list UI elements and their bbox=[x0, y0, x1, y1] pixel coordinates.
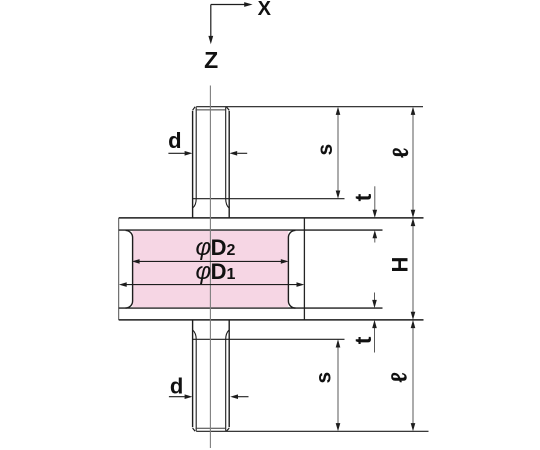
plate left edge bbox=[118, 218, 120, 320]
dimension l (bottom) bbox=[411, 320, 416, 431]
top plate top line bbox=[119, 217, 424, 219]
svg-text:t: t bbox=[350, 336, 376, 344]
dimension d (bottom) bbox=[169, 394, 249, 399]
plate right edge bbox=[303, 218, 305, 320]
svg-text:X: X bbox=[258, 0, 272, 20]
top stud top edge + extension line bbox=[196, 106, 423, 108]
dimension s (top) bbox=[336, 107, 341, 199]
dimension l (top) bbox=[411, 107, 416, 218]
svg-text:ℓ: ℓ bbox=[386, 372, 411, 383]
bottom plate bottom line bbox=[119, 319, 424, 321]
svg-text:s: s bbox=[314, 144, 337, 156]
rubber right profile with fillets bbox=[288, 230, 295, 308]
dimension D1 bbox=[119, 282, 304, 287]
rubber left profile with fillets bbox=[126, 230, 133, 308]
svg-text:t: t bbox=[350, 193, 376, 201]
top plate bottom line bbox=[119, 229, 383, 231]
bottom plate top line bbox=[119, 307, 383, 309]
thread runout line bottom (extension for s) bbox=[193, 338, 345, 340]
bottom stud bottom edge + extension line bbox=[196, 430, 428, 432]
bottom stud bbox=[193, 320, 230, 431]
dimension s (bottom) bbox=[336, 339, 341, 431]
dimension D2 bbox=[132, 259, 289, 264]
dimension H bbox=[411, 218, 416, 320]
svg-text:H: H bbox=[388, 257, 413, 273]
dimension t (top) bbox=[373, 186, 378, 242]
svg-text:ℓ: ℓ bbox=[388, 147, 413, 158]
svg-text:d: d bbox=[168, 128, 181, 153]
top stud bbox=[193, 107, 230, 218]
Z axis arrow bbox=[208, 5, 213, 45]
svg-text:Z: Z bbox=[204, 47, 218, 73]
svg-text:s: s bbox=[313, 372, 336, 384]
thread runout line top (extension for s) bbox=[193, 198, 345, 200]
svg-text:d: d bbox=[170, 374, 183, 399]
center line bbox=[209, 86, 211, 449]
rubber body fill bbox=[132, 231, 288, 307]
dimension d (top) bbox=[168, 151, 247, 156]
dimension t (bottom) bbox=[372, 293, 377, 353]
X axis arrow bbox=[211, 2, 253, 7]
